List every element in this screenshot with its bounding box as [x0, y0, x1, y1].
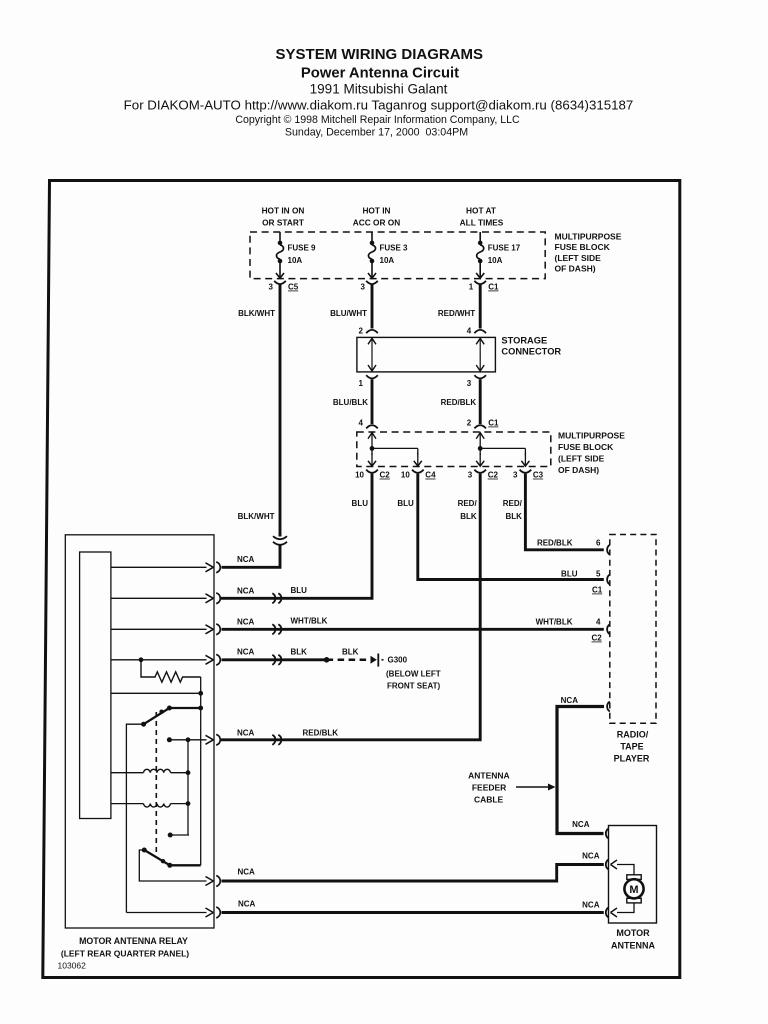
inline connector row 4 — [272, 655, 281, 665]
svg-text:C1: C1 — [488, 283, 499, 292]
relay edge connector — [206, 734, 221, 745]
svg-text:3: 3 — [467, 379, 472, 388]
svg-text:OR START: OR START — [262, 218, 304, 228]
radio pin NCA arc — [607, 702, 610, 712]
switch SW2 output wire — [170, 864, 201, 866]
svg-text:NCA: NCA — [237, 586, 255, 595]
junction node on row 4 — [139, 657, 144, 662]
svg-text:RED/BLK: RED/BLK — [441, 398, 477, 407]
svg-text:FEEDER: FEEDER — [472, 782, 506, 792]
relay contact bus vertical — [187, 740, 189, 835]
svg-text:FUSE 9: FUSE 9 — [288, 244, 317, 253]
relay internal wire — [111, 597, 207, 599]
wire NCA row 1 to BLK/WHT column — [222, 545, 281, 567]
switch SW1 output wire — [169, 707, 200, 709]
svg-text:RED/WHT: RED/WHT — [438, 309, 475, 318]
svg-text:NCA: NCA — [572, 820, 590, 829]
wire BLU/WHT col2 vertical — [371, 284, 374, 328]
wire RED/BLK col3 down to relay row 5 — [221, 474, 480, 740]
relay internal wire row 8 — [126, 912, 206, 914]
multipurpose fuse block 2 (dashed box) — [357, 432, 551, 467]
svg-text:1991 Mitsubishi Galant: 1991 Mitsubishi Galant — [310, 82, 448, 97]
label HOT AT / ALL TIMES — [460, 206, 504, 228]
svg-text:(LEFT REAR QUARTER PANEL): (LEFT REAR QUARTER PANEL) — [61, 949, 189, 959]
svg-text:C2: C2 — [488, 471, 499, 480]
svg-text:NCA: NCA — [582, 852, 600, 861]
svg-text:Power Antenna Circuit: Power Antenna Circuit — [301, 66, 459, 82]
svg-text:4: 4 — [467, 327, 472, 336]
svg-text:NCA: NCA — [237, 617, 255, 626]
svg-text:3: 3 — [361, 283, 366, 292]
svg-text:RED/BLK: RED/BLK — [537, 538, 573, 547]
svg-text:C4: C4 — [425, 471, 436, 480]
fuse FUSE 3 — [368, 232, 375, 278]
svg-text:STORAGE: STORAGE — [501, 336, 547, 346]
storage connector entry pin 2 — [366, 330, 378, 333]
svg-text:RED/: RED/ — [458, 499, 478, 508]
wire BLK/WHT col1 vertical upper — [279, 284, 282, 536]
svg-text:4: 4 — [359, 419, 364, 428]
relay internal wire row 5 — [111, 692, 201, 694]
svg-text:C5: C5 — [288, 283, 299, 292]
motor M symbol — [624, 875, 643, 903]
svg-text:BLU: BLU — [561, 569, 578, 578]
relay edge connector — [206, 654, 221, 665]
fuse block pin exit 1 — [474, 273, 486, 284]
label G300 (BELOW LEFT FRONT SEAT) — [386, 656, 441, 691]
fuse FUSE 3 value label — [380, 244, 409, 266]
storage connector internal wire with arrows — [476, 338, 484, 371]
svg-text:HOT AT: HOT AT — [466, 206, 496, 216]
label HOT IN / ACC OR ON — [353, 206, 400, 228]
label ANTENNA FEEDER CABLE — [468, 770, 510, 804]
svg-text:ACC OR ON: ACC OR ON — [353, 218, 400, 228]
relay internal bus vertical — [200, 677, 202, 865]
fuse block 2 exit arrow — [474, 453, 486, 473]
relay contact stub lower — [168, 833, 189, 838]
relay coil L2 — [111, 801, 191, 807]
svg-text:CABLE: CABLE — [474, 794, 504, 804]
feeder cable pointer arrow — [516, 784, 556, 791]
relay inner block — [80, 552, 111, 819]
svg-text:NCA: NCA — [238, 899, 256, 908]
svg-text:BLK/WHT: BLK/WHT — [238, 512, 275, 521]
fuse block 2 entry pin 4 — [366, 425, 378, 428]
ground G300 symbol — [371, 654, 384, 667]
svg-text:Sunday, December 17, 2000 03:: Sunday, December 17, 2000 03:04PM — [285, 127, 468, 139]
motor antenna box — [609, 826, 657, 924]
svg-text:NCA: NCA — [237, 555, 255, 564]
svg-text:C1: C1 — [592, 586, 603, 595]
svg-text:FUSE BLOCK: FUSE BLOCK — [555, 242, 611, 252]
switch SW1 pivot lead — [126, 724, 143, 912]
svg-text:BLK: BLK — [291, 647, 308, 656]
label HOT IN ON / OR START — [262, 206, 305, 228]
svg-text:C2: C2 — [380, 471, 391, 480]
diagram border frame — [43, 181, 680, 978]
svg-text:OF DASH): OF DASH) — [555, 264, 596, 274]
fuse FUSE 9 — [276, 232, 283, 278]
switch SW2 pivot lead — [139, 850, 206, 881]
wire BLK dashed to ground — [327, 659, 369, 662]
svg-text:SYSTEM WIRING DIAGRAMS: SYSTEM WIRING DIAGRAMS — [276, 46, 484, 63]
inline connector on BLK/WHT (vertical) — [273, 536, 287, 545]
wire RED/BLK col3 — [479, 379, 482, 424]
svg-text:MOTOR ANTENNA RELAY: MOTOR ANTENNA RELAY — [79, 936, 188, 946]
svg-text:BLU: BLU — [397, 499, 414, 508]
fuse FUSE 9 value label — [288, 244, 317, 266]
fuse block 2 exit arrow — [520, 453, 532, 473]
relay edge connector — [206, 624, 221, 635]
storage connector exit cup pin 1 — [366, 375, 378, 378]
svg-text:MOTOR: MOTOR — [616, 928, 650, 938]
svg-text:4: 4 — [596, 618, 601, 627]
storage connector box — [357, 337, 496, 372]
svg-text:WHT/BLK: WHT/BLK — [291, 617, 328, 626]
fuse block 1 caption — [555, 232, 622, 274]
motor pin 3 arc — [606, 908, 617, 918]
svg-text:Copyright © 1998 Mitchell Repa: Copyright © 1998 Mitchell Repair Informa… — [235, 114, 520, 126]
svg-text:FUSE 3: FUSE 3 — [380, 244, 409, 253]
fuse block pin exit 3 — [366, 273, 378, 284]
svg-text:C2: C2 — [592, 634, 603, 643]
svg-text:C3: C3 — [533, 471, 544, 480]
relay edge connector — [206, 876, 221, 887]
svg-text:BLK: BLK — [460, 512, 477, 521]
svg-text:NCA: NCA — [237, 647, 255, 656]
svg-text:NCA: NCA — [582, 900, 600, 909]
svg-text:2: 2 — [467, 419, 472, 428]
wire NCA row 4 (BLK ground wire) — [222, 658, 327, 661]
antenna feeder cable — [557, 707, 604, 834]
relay edge connector — [206, 562, 221, 573]
relay internal wire — [111, 566, 207, 568]
relay coil L1 — [111, 769, 191, 775]
svg-text:OF DASH): OF DASH) — [558, 465, 599, 475]
svg-text:NCA: NCA — [237, 728, 255, 737]
svg-text:6: 6 — [596, 538, 601, 547]
motor pin 2 arc — [606, 860, 617, 870]
inline connector row 2 — [272, 593, 281, 603]
wire NCA row 8 to motor pin 3 — [222, 911, 604, 914]
svg-text:BLK: BLK — [342, 647, 359, 656]
relay internal wire — [111, 659, 207, 661]
motor antenna relay box — [65, 535, 214, 928]
svg-text:(BELOW LEFT: (BELOW LEFT — [386, 670, 441, 679]
svg-text:RADIO/: RADIO/ — [617, 730, 649, 740]
storage connector internal wire with arrows — [368, 338, 376, 371]
svg-text:MULTIPURPOSE: MULTIPURPOSE — [555, 232, 622, 242]
fuse FUSE 17 — [477, 232, 484, 278]
svg-text:TAPE: TAPE — [620, 742, 643, 752]
svg-text:5: 5 — [596, 569, 601, 578]
fuse block 2 internal branch — [478, 446, 526, 455]
svg-text:ANTENNA: ANTENNA — [468, 770, 510, 780]
svg-text:BLU: BLU — [291, 586, 308, 595]
storage connector exit cup pin 3 — [474, 375, 486, 378]
svg-text:RED/: RED/ — [503, 499, 523, 508]
relay edge connector — [206, 907, 221, 918]
fuse FUSE 17 value label — [488, 244, 521, 266]
fuse block 2 exit arrow — [366, 453, 378, 473]
svg-text:CONNECTOR: CONNECTOR — [501, 347, 561, 357]
svg-text:1: 1 — [359, 379, 364, 388]
svg-text:PLAYER: PLAYER — [614, 754, 650, 764]
svg-text:103062: 103062 — [58, 961, 87, 971]
fuse block 2 entry pin 2 — [474, 425, 486, 428]
relay internal wire — [111, 628, 207, 630]
storage connector entry pin 4 — [474, 330, 486, 333]
svg-text:C1: C1 — [488, 419, 499, 428]
radio pin 5 arc — [607, 575, 610, 585]
fuse block 2 exit arrow — [412, 453, 424, 473]
svg-text:NCA: NCA — [238, 868, 256, 877]
radio pin 6 arc — [607, 545, 610, 555]
svg-text:BLK/WHT: BLK/WHT — [238, 309, 275, 318]
radio/tape player box (dashed) — [610, 535, 656, 724]
inline connector row 5 — [272, 735, 281, 745]
svg-text:FUSE 17: FUSE 17 — [488, 244, 521, 253]
svg-text:MULTIPURPOSE: MULTIPURPOSE — [558, 431, 625, 441]
fuse block 2 internal branch — [370, 446, 418, 455]
radio pin 4 arc — [607, 624, 610, 634]
svg-text:BLU/WHT: BLU/WHT — [330, 309, 367, 318]
svg-text:FRONT SEAT): FRONT SEAT) — [387, 682, 441, 691]
relay edge connector — [206, 593, 221, 604]
junction node ground splice — [324, 657, 330, 663]
switch SW1 (relay contact) — [141, 706, 172, 727]
fuse block 2 caption — [558, 431, 625, 476]
svg-text:ALL TIMES: ALL TIMES — [460, 218, 504, 228]
relay caption — [61, 936, 189, 959]
svg-text:10: 10 — [355, 471, 364, 480]
wire BLU/BLK col2 — [371, 379, 374, 424]
svg-text:HOT IN ON: HOT IN ON — [262, 206, 305, 216]
junction node — [198, 706, 203, 711]
wire RED/WHT col3 vertical — [479, 284, 482, 328]
svg-text:BLU: BLU — [352, 499, 369, 508]
junction node — [198, 691, 203, 696]
svg-text:(LEFT SIDE: (LEFT SIDE — [555, 253, 602, 263]
motor internal wiring — [617, 865, 634, 913]
fuse block 2 internal wire with entry arrow — [368, 432, 376, 448]
svg-text:3: 3 — [269, 283, 274, 292]
switch SW2 (relay contact) — [142, 848, 173, 868]
svg-text:G300: G300 — [388, 656, 408, 665]
svg-text:FUSE BLOCK: FUSE BLOCK — [558, 442, 614, 452]
relay contact stub row 6 — [167, 737, 207, 742]
svg-text:ANTENNA: ANTENNA — [611, 941, 655, 951]
svg-text:BLU/BLK: BLU/BLK — [333, 398, 368, 407]
radio caption — [614, 730, 650, 764]
svg-text:10A: 10A — [380, 256, 395, 265]
svg-text:WHT/BLK: WHT/BLK — [536, 618, 573, 627]
svg-text:(LEFT SIDE: (LEFT SIDE — [558, 454, 605, 464]
wire NCA row 3 (WHT/BLK) to radio pin 4 — [222, 628, 604, 631]
fuse block pin exit 3 — [274, 273, 286, 284]
svg-text:M: M — [629, 884, 638, 896]
svg-text:10A: 10A — [288, 256, 303, 265]
motor pin 1 arc — [606, 829, 609, 839]
inline connector row 3 — [272, 624, 281, 634]
wire BLU col2 down to relay row 2 — [221, 474, 372, 599]
svg-text:RED/BLK: RED/BLK — [303, 728, 339, 737]
mechanical link (dashed) — [155, 712, 157, 852]
wire BLU branch to radio pin 5 — [418, 474, 604, 580]
storage connector caption — [501, 336, 561, 357]
svg-text:1: 1 — [469, 283, 474, 292]
svg-text:3: 3 — [468, 471, 473, 480]
svg-text:For DIAKOM-AUTO http://www.dia: For DIAKOM-AUTO http://www.diakom.ru Tag… — [124, 98, 634, 113]
motor antenna caption — [611, 928, 655, 951]
svg-text:10A: 10A — [488, 256, 503, 265]
svg-text:BLK: BLK — [505, 512, 522, 521]
svg-text:NCA: NCA — [561, 696, 579, 705]
multipurpose fuse block 1 (dashed box) — [250, 232, 545, 279]
wire RED/BLK branch to radio pin 6 — [525, 474, 603, 550]
resistor R (relay coil resistor) — [141, 660, 201, 682]
label RED/ BLK two lines — [503, 499, 523, 521]
svg-text:HOT IN: HOT IN — [362, 206, 390, 216]
wire NCA row 7 to motor pin 2 — [222, 865, 604, 882]
svg-text:10: 10 — [401, 471, 410, 480]
label RED/ BLK two lines — [458, 499, 478, 521]
svg-text:3: 3 — [513, 471, 518, 480]
fuse block 2 internal wire with entry arrow — [476, 432, 484, 448]
svg-text:2: 2 — [359, 327, 364, 336]
